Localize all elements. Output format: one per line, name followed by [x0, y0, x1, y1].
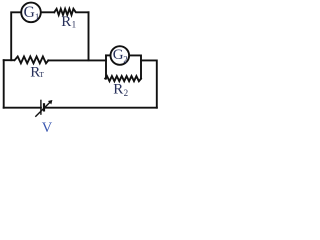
svg-text:G: G — [24, 4, 35, 21]
svg-text:T: T — [39, 70, 44, 79]
svg-text:2: 2 — [124, 88, 129, 98]
svg-text:1: 1 — [72, 20, 77, 30]
svg-text:R: R — [61, 14, 71, 30]
svg-text:1: 1 — [35, 12, 40, 22]
svg-text:G: G — [113, 47, 124, 63]
svg-text:V: V — [42, 120, 53, 136]
svg-text:2: 2 — [123, 54, 128, 64]
svg-text:R: R — [113, 82, 123, 98]
